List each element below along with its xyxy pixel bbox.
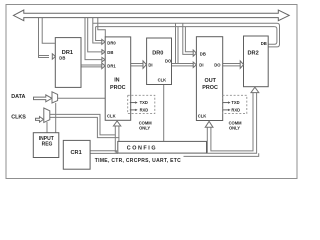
svg-text:REG: REG <box>42 141 53 147</box>
arrowhead IN PROC DB input <box>102 50 105 55</box>
svg-text:ONLY: ONLY <box>139 126 150 131</box>
block arrow DATA input <box>34 95 52 102</box>
wire: OUT PROC to DR2 hollow wire <box>223 63 241 65</box>
svg-text:PROC: PROC <box>202 85 218 91</box>
block arrow CLKS input <box>36 117 44 123</box>
RXD pin line (right) <box>223 109 228 111</box>
block CR1 <box>63 140 90 169</box>
svg-text:IN: IN <box>114 78 119 84</box>
svg-text:RXD: RXD <box>140 108 149 113</box>
wire: bus drop + H2 long data bus line <box>96 27 102 41</box>
register DR2 <box>244 36 269 87</box>
RXD pin arrowhead (left) <box>135 109 137 111</box>
arrowhead OUT PROC to DR2 <box>240 61 243 68</box>
arrowhead IN PROC input3 <box>102 57 105 61</box>
wire: CR1 output pair <box>90 151 116 154</box>
arrowhead up into DR2 bottom <box>251 87 259 92</box>
svg-text:DB: DB <box>59 56 65 61</box>
wire: bus drop to IN PROC DB input <box>88 18 102 52</box>
svg-text:CONFIG: CONFIG <box>127 145 157 151</box>
dashed box COMM ONLY (IN PROC) <box>128 95 155 113</box>
dashed box COMM ONLY (OUT PROC) <box>223 95 247 113</box>
svg-text:TXD: TXD <box>231 100 239 105</box>
svg-text:DR0: DR0 <box>107 41 116 46</box>
wire: bus drop + H1 long data bus line <box>93 18 102 43</box>
svg-text:CLKS: CLKS <box>11 115 26 121</box>
wire: clock stub down into CONFIG <box>114 135 116 153</box>
arrowhead up into OUT PROC CLK <box>205 121 213 127</box>
wire: DR0 to OUT PROC hollow wire <box>172 63 194 65</box>
svg-text:OUT: OUT <box>205 78 217 84</box>
arrowhead into DR1 DB <box>52 54 55 59</box>
wire: bus drop to IN PROC input3 <box>85 18 102 60</box>
wire: bus drop to DR1 upper input <box>39 18 50 58</box>
block OUT PROC <box>196 37 222 121</box>
arrowhead up into IN PROC CLK <box>113 121 120 126</box>
wire: DATA mux to IN PROC <box>58 97 106 99</box>
arrowhead IN PROC DR0 input <box>102 39 105 44</box>
RXD pin arrowhead (right) <box>228 109 230 111</box>
RXD pin line (left) <box>130 109 135 111</box>
svg-text:DR1: DR1 <box>107 64 116 69</box>
svg-text:DATA: DATA <box>11 94 25 100</box>
svg-text:DI: DI <box>148 62 152 67</box>
wire: DR0 CLK vertical to CONFIG <box>163 84 165 141</box>
svg-text:RXD: RXD <box>231 108 240 113</box>
svg-text:DO: DO <box>165 59 172 64</box>
svg-text:CLK: CLK <box>198 113 207 118</box>
arrowhead IN PROC DR1 input <box>102 63 105 69</box>
block IN PROC <box>105 37 131 120</box>
wire: DR1 to IN PROC DR1 input <box>81 64 102 66</box>
wire: CLKS hollow clock wire to IN PROC CLK arrow <box>50 114 116 134</box>
arrowhead DR0 to OUT PROC <box>193 62 196 67</box>
wire: IN PROC to DR0 hollow wire <box>131 63 143 65</box>
svg-text:DB: DB <box>200 52 206 57</box>
svg-text:DB: DB <box>107 50 113 55</box>
svg-text:DI: DI <box>199 63 203 68</box>
wire: long line under config to DR2 arrow bundle <box>184 153 259 156</box>
svg-text:DB: DB <box>261 41 267 46</box>
TXD pin arrowhead (left) <box>135 101 137 103</box>
svg-text:ONLY: ONLY <box>229 126 240 131</box>
svg-text:PROC: PROC <box>110 85 126 91</box>
svg-text:DR0: DR0 <box>152 50 163 56</box>
mux CLKS <box>44 108 50 123</box>
block CONFIG <box>118 141 207 153</box>
arrowhead OUT PROC DB input <box>193 50 196 56</box>
mux DATA <box>52 92 58 103</box>
svg-text:TXD: TXD <box>140 100 148 105</box>
wire: DATA mux down to INPUT REG <box>55 103 57 133</box>
wire: CLKS mux down to INPUT REG <box>46 122 48 133</box>
TXD pin line (right) <box>223 102 228 104</box>
svg-text:CR1: CR1 <box>71 150 82 156</box>
register DR1 <box>55 38 81 88</box>
wire: branch down to OUT PROC DB input <box>183 23 193 54</box>
register DR0 <box>147 38 172 85</box>
TXD pin line (left) <box>130 102 135 104</box>
svg-text:DO: DO <box>214 62 221 67</box>
svg-text:TIME, CTR, CRCPRS, UART, ETC: TIME, CTR, CRCPRS, UART, ETC <box>95 158 181 164</box>
wire: bus drop to DR1 line <box>42 18 55 44</box>
wire: branch down to DR0-OUTPROC wire <box>175 23 177 63</box>
svg-text:DR2: DR2 <box>248 50 259 56</box>
wire: OUT PROC clk arrow tails down and right to DR2 bottom arrow <box>207 93 256 154</box>
bus arrow (bidirectional) <box>13 10 289 21</box>
svg-text:CLK: CLK <box>107 113 116 118</box>
block INPUT REG <box>33 133 59 158</box>
svg-text:CLK: CLK <box>158 78 167 83</box>
border frame <box>6 5 297 179</box>
TXD pin arrowhead (right) <box>228 101 230 103</box>
arrowhead IN PROC to DR0 <box>143 61 146 68</box>
wire: H3 short bus line into IN PROC top corner <box>98 18 106 37</box>
